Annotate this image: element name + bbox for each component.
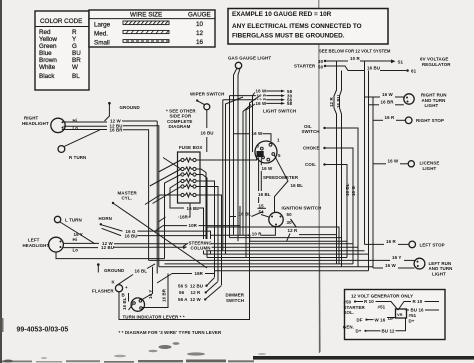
svg-text:Lo: Lo [73,248,79,253]
svg-text:50: 50 [287,212,293,217]
wire master cylinder diagonal [114,204,207,268]
svg-text:50: 50 [318,65,324,70]
svg-text:5: 5 [278,153,281,158]
riser from light switch bus row3 [226,97,244,254]
svg-text:16 Y: 16 Y [148,290,153,299]
svg-text:3: 3 [257,143,260,148]
fuse output wire row6 [196,195,221,285]
wire 16BR to right run light [369,104,380,106]
svg-text:16 W: 16 W [388,159,399,164]
svg-text:16 BU: 16 BU [201,130,214,135]
fan wire 3 [250,240,347,242]
svg-text:10: 10 [196,21,204,28]
svg-text:SPEEDOMETER: SPEEDOMETER [263,175,299,180]
fan wire 2 [230,237,342,239]
svg-text:R TURN: R TURN [69,155,86,160]
svg-text:16 BL: 16 BL [135,269,148,274]
svg-text:COMPLETE: COMPLETE [167,119,192,124]
svg-text:STARTER: STARTER [294,64,316,69]
wire 12R to light switch 30 [230,95,282,97]
flasher [115,285,122,292]
wire 16W bus to speedometer [234,133,251,135]
svg-text:Green: Green [39,43,57,50]
svg-text:CHOKE: CHOKE [303,146,320,151]
svg-text:LIGHT SWITCH: LIGHT SWITCH [263,109,296,114]
svg-text:12 R: 12 R [191,290,201,295]
svg-text:EXAMPLE 10 GAUGE RED = 10R: EXAMPLE 10 GAUGE RED = 10R [232,11,332,18]
svg-text:99-4053-0/03-05: 99-4053-0/03-05 [17,327,69,334]
lamp left stop [409,241,416,248]
ground stub bottom [97,263,100,266]
wire size legend box [89,10,215,47]
svg-text:FIBERGLASS MUST BE GROUNDED.: FIBERGLASS MUST BE GROUNDED. [232,33,345,40]
svg-text:Black: Black [39,73,55,80]
svg-text:Blue: Blue [39,50,52,57]
svg-text:W: W [72,64,78,71]
svg-text:16 BL: 16 BL [258,192,271,197]
svg-text:12 R: 12 R [288,228,298,233]
svg-text:#51: #51 [409,313,417,318]
wire 15/54 to ignition [261,215,270,218]
fuse output wire row4 [196,181,214,277]
fuse 5 [181,184,196,188]
wire gas gauge light left leg [234,68,237,234]
fuse 4 [181,179,196,183]
wire 16BL turn lever [128,293,130,302]
svg-text:VR: VR [397,312,403,317]
fuse feed diagonal crossing [163,158,181,170]
svg-text:BU 16: BU 16 [411,308,425,313]
svg-text:16 BL: 16 BL [291,183,304,188]
scan crease vertical line [318,0,321,353]
svg-text:B: B [122,293,125,298]
ground stub [108,102,111,105]
svg-text:CYL.: CYL. [122,196,133,201]
svg-text:W 16: W 16 [375,317,386,322]
wire 16W to right run light [365,96,381,98]
svg-text:12 R: 12 R [329,97,334,107]
fuse feed diagonal row5 [153,187,181,204]
color code legend box [35,11,89,90]
svg-text:Small: Small [94,40,110,47]
fan wire 0 [207,227,339,264]
right turn lamp [58,146,65,153]
fuse output wire row2 [196,169,206,251]
wire size sample bar medium [123,30,169,33]
wire 16BU starter to terminal 61 [326,66,365,71]
right column riser B [368,71,370,271]
wire 10R ignition [211,206,275,241]
lamp license light [408,161,414,167]
light switch riser to flasher run [250,96,261,320]
svg-text:COLOR CODE: COLOR CODE [40,18,82,25]
svg-text:16 R: 16 R [385,115,395,120]
svg-text:12: 12 [196,30,204,37]
fan wire 7 [204,253,369,255]
wire 16R below fuse box [178,203,190,217]
wire R10 out [398,302,411,311]
svg-text:16R: 16R [195,271,204,276]
svg-text:ANY ELECTRICAL ITEMS CONNECTED: ANY ELECTRICAL ITEMS CONNECTED TO [232,23,362,30]
svg-text:SIDE FOR: SIDE FOR [170,114,192,119]
wire 16W to light switch 58 [253,91,282,152]
fan wire 1 [299,234,337,236]
svg-text:RIGHT STOP: RIGHT STOP [416,118,444,123]
svg-text:Yellow: Yellow [39,36,57,43]
left headlight [49,237,64,252]
wire BU12 generator [367,330,381,332]
svg-text:#50: #50 [344,299,352,304]
wire 12W left headlight, continues to loop fan [64,242,100,244]
svg-text:* SEE OTHER: * SEE OTHER [166,108,196,113]
svg-text:6V VOLTAGE: 6V VOLTAGE [420,57,448,62]
svg-text:10R: 10R [189,223,198,228]
wire 16W to light switch 58 lower [246,103,281,257]
svg-text:16 Y: 16 Y [74,232,83,237]
svg-text:FLASHER: FLASHER [92,289,114,294]
svg-text:DF: DF [357,317,363,322]
wire 16BU horn [102,228,122,235]
svg-text:15: 15 [259,203,265,208]
svg-text:SWITCH: SWITCH [226,298,244,303]
wire 12BU left headlight, continues to loop fan [64,247,99,249]
wire W16 generator [368,319,374,321]
svg-text:IGNITION SWITCH: IGNITION SWITCH [282,205,322,210]
wire size sample bar large [123,21,169,25]
svg-text:HORN: HORN [99,216,112,221]
steering column arrow [183,243,188,246]
wire 12R riser from 10R line (jogged) [334,61,337,264]
wire 16BL flasher [118,275,134,285]
svg-text:WIRE SIZE: WIRE SIZE [130,12,162,19]
wire 16G horn [102,225,123,231]
right column riser A [364,61,366,244]
speedometer connector block [257,151,264,157]
wire BU16 out [406,309,410,311]
fuse feed diagonal 1 [159,160,181,172]
wire right turn to 16BR [64,130,100,147]
fuse 1 [181,158,196,162]
svg-text:30: 30 [318,59,324,64]
wire left headlight ground run [56,252,165,259]
svg-text:16 W: 16 W [262,166,273,171]
svg-text:HEADLIGHT: HEADLIGHT [22,121,49,126]
svg-text:BU: BU [72,50,81,57]
svg-text:BL: BL [72,73,80,80]
svg-text:16 BU: 16 BU [367,65,380,70]
wire 16BU riser from 16BU line (jogged) [340,71,342,267]
wire left turn 16Y [60,222,95,244]
wire 16R to right stop light [373,119,383,121]
svg-text:LICENSE: LICENSE [420,160,440,165]
light switch riser extra [243,105,251,236]
svg-text:16: 16 [196,39,204,46]
svg-text:56 S: 56 S [178,283,188,288]
fan wire 10 [165,263,354,265]
wire 16BR turn lever [142,274,168,308]
wire 16BR right headlight [62,129,107,131]
svg-text:LIGHT: LIGHT [423,166,437,171]
svg-text:12 W: 12 W [190,297,201,302]
fan wire 9 16Y left run [149,259,369,261]
svg-text:16 BR: 16 BR [381,100,395,105]
svg-text:S1: S1 [398,60,404,65]
svg-text:BU 12: BU 12 [382,329,396,334]
svg-text:16 W: 16 W [256,101,267,106]
wire 12R to light switch 56 [223,100,281,251]
svg-text:DIAGRAM: DIAGRAM [169,124,191,129]
svg-text:SOL.: SOL. [344,310,355,315]
scan bottom dark bar [253,356,474,360]
svg-text:16 Y: 16 Y [392,255,401,260]
wire 12W right headlight [64,121,108,123]
svg-text:MASTER: MASTER [118,190,138,195]
svg-text:D+: D+ [409,319,415,324]
fan wire 11 16W left run [159,266,373,268]
regulator block VR [396,309,407,318]
bus riser row2 [229,96,231,238]
wire choke [326,148,354,264]
svg-text:DF: DF [388,316,394,321]
wire 16R lower left [157,274,172,284]
svg-text:COLUMN: COLUMN [191,246,211,251]
svg-text:Med.: Med. [94,31,108,38]
svg-text:WIPER SWITCH: WIPER SWITCH [190,92,224,97]
svg-text:GROUND: GROUND [104,268,125,273]
fuse output wire row3 [196,175,207,258]
wire 16W to left run light [373,267,383,269]
lamp left run and turn light [414,258,425,269]
svg-text:16 BL: 16 BL [345,183,350,196]
svg-text:Large: Large [94,22,111,29]
svg-text:GAUGE: GAUGE [188,12,211,19]
fuse 6 [181,193,196,197]
svg-text:16 BR: 16 BR [110,128,124,133]
svg-text:COIL: COIL [305,162,316,167]
wire coil [326,165,348,258]
fan wire 12 [215,270,369,272]
svg-text:1: 1 [277,138,280,143]
wire 12BU right headlight [64,125,108,127]
wire 16BL to ignition 15/54 [230,216,237,218]
svg-text:SWITCH: SWITCH [302,129,320,134]
svg-text:HEADLIGHT: HEADLIGHT [23,243,50,248]
svg-text:White: White [39,64,56,71]
fuse 2 [181,167,196,171]
svg-text:56 A: 56 A [178,297,188,302]
svg-text:16 BL: 16 BL [239,212,252,217]
wire 16R to left stop light [365,243,385,245]
svg-text:REGULATOR: REGULATOR [422,62,451,67]
wire gas gauge light right leg [238,68,240,241]
fuse output wire row1 to speedometer block [196,157,256,160]
svg-text:16 BU: 16 BU [336,95,341,108]
lamp right run and turn light [404,94,414,104]
wire R10 generator [356,301,363,303]
svg-text:16 BR: 16 BR [162,288,167,302]
svg-text:LIGHT: LIGHT [425,103,439,108]
svg-text:GROUND: GROUND [120,105,141,110]
fuse feed diagonal 3 [165,175,181,259]
svg-text:LEFT: LEFT [28,238,40,243]
svg-text:FUSE BOX: FUSE BOX [179,145,202,150]
wire 16BL speedometer to ignition [274,155,288,212]
steering column label [187,239,212,251]
ignition switch [269,212,283,226]
svg-text:Red: Red [39,29,51,36]
svg-text:Hi: Hi [73,237,78,242]
svg-text:RIGHT: RIGHT [24,116,38,121]
wire 16W speedometer lower [259,158,262,203]
svg-text:TURN INDICATOR LEVER * *: TURN INDICATOR LEVER * * [123,314,185,319]
svg-text:STEERING: STEERING [189,240,213,245]
svg-text:16 BL: 16 BL [122,297,127,310]
svg-text:58: 58 [287,101,293,106]
svg-text:R 10: R 10 [364,299,374,304]
example note box [228,9,388,45]
svg-text:16 W: 16 W [385,263,396,268]
svg-text:61: 61 [411,68,417,73]
wire 16Y to left run light [369,259,391,261]
svg-text:GAS GAUGE LIGHT: GAS GAUGE LIGHT [228,56,271,61]
svg-text:16 G: 16 G [351,186,356,196]
svg-text:DIMMER: DIMMER [226,292,245,297]
12 volt generator box [345,290,446,340]
svg-text:L TURN: L TURN [65,217,82,222]
fuse 3 [181,172,196,176]
svg-text:16 W: 16 W [252,131,263,136]
svg-text:16R: 16R [180,215,189,220]
left turn lamp [54,216,60,222]
svg-text:G: G [72,43,77,50]
svg-text:Brown: Brown [39,57,57,64]
svg-text:R 10: R 10 [413,299,423,304]
wire 16W to license light [373,163,386,165]
speedometer [255,141,277,163]
svg-text:12 BU: 12 BU [101,245,114,250]
wire 16BL from fuse box bottom [170,181,184,208]
turn indicator lever [131,298,144,311]
fan wire 8 [207,257,347,259]
fan wire 6 [206,250,365,252]
wire flasher B run [119,265,250,320]
right headlight [51,118,65,132]
wire 10R below fuse box [156,226,164,231]
svg-text:* * DIAGRAM FOR '3 WIRE' TYPE: * * DIAGRAM FOR '3 WIRE' TYPE TURN LEVER [119,330,222,335]
svg-text:LIGHT: LIGHT [432,271,446,276]
svg-text:BR: BR [72,57,81,64]
right column riser C [372,97,374,268]
svg-text:10 R: 10 R [350,56,360,61]
svg-text:16 R: 16 R [386,239,396,244]
svg-text:LEFT STOP: LEFT STOP [420,242,445,247]
wire oil switch [326,128,359,267]
svg-text:#51: #51 [378,305,386,310]
label 16BL vertical run [257,191,270,197]
svg-text:R: R [72,29,77,36]
wire 16Y turn lever [142,267,153,300]
fuse output wire row5 [196,187,218,282]
svg-text:56: 56 [179,290,185,295]
svg-text:GEN.: GEN. [343,324,354,329]
wire 10R starter to regulator S1 [326,60,348,62]
scan left edge [0,0,2,363]
fuse feed row6 left [145,195,181,205]
svg-text:16 BU: 16 BU [125,233,138,238]
svg-text:10 R: 10 R [252,232,262,237]
svg-text:12 VOLT GENERATOR ONLY: 12 VOLT GENERATOR ONLY [351,294,413,299]
svg-text:SEE BELOW FOR 12 VOLT SYSTEM: SEE BELOW FOR 12 VOLT SYSTEM [319,49,391,54]
svg-text:D+: D+ [356,329,362,334]
wire size sample bar small [123,40,169,43]
fuse feed diagonal 2 [150,169,181,186]
wire 16BU wiper to fuse box [206,110,208,128]
lamp right stop [405,117,412,124]
svg-text:16 BL: 16 BL [187,206,200,211]
ignition lever [291,219,297,228]
svg-text:16 W: 16 W [382,92,393,97]
svg-text:+: + [125,285,128,290]
svg-text:12 BU: 12 BU [190,283,203,288]
scan bottom smudges [0,318,266,363]
